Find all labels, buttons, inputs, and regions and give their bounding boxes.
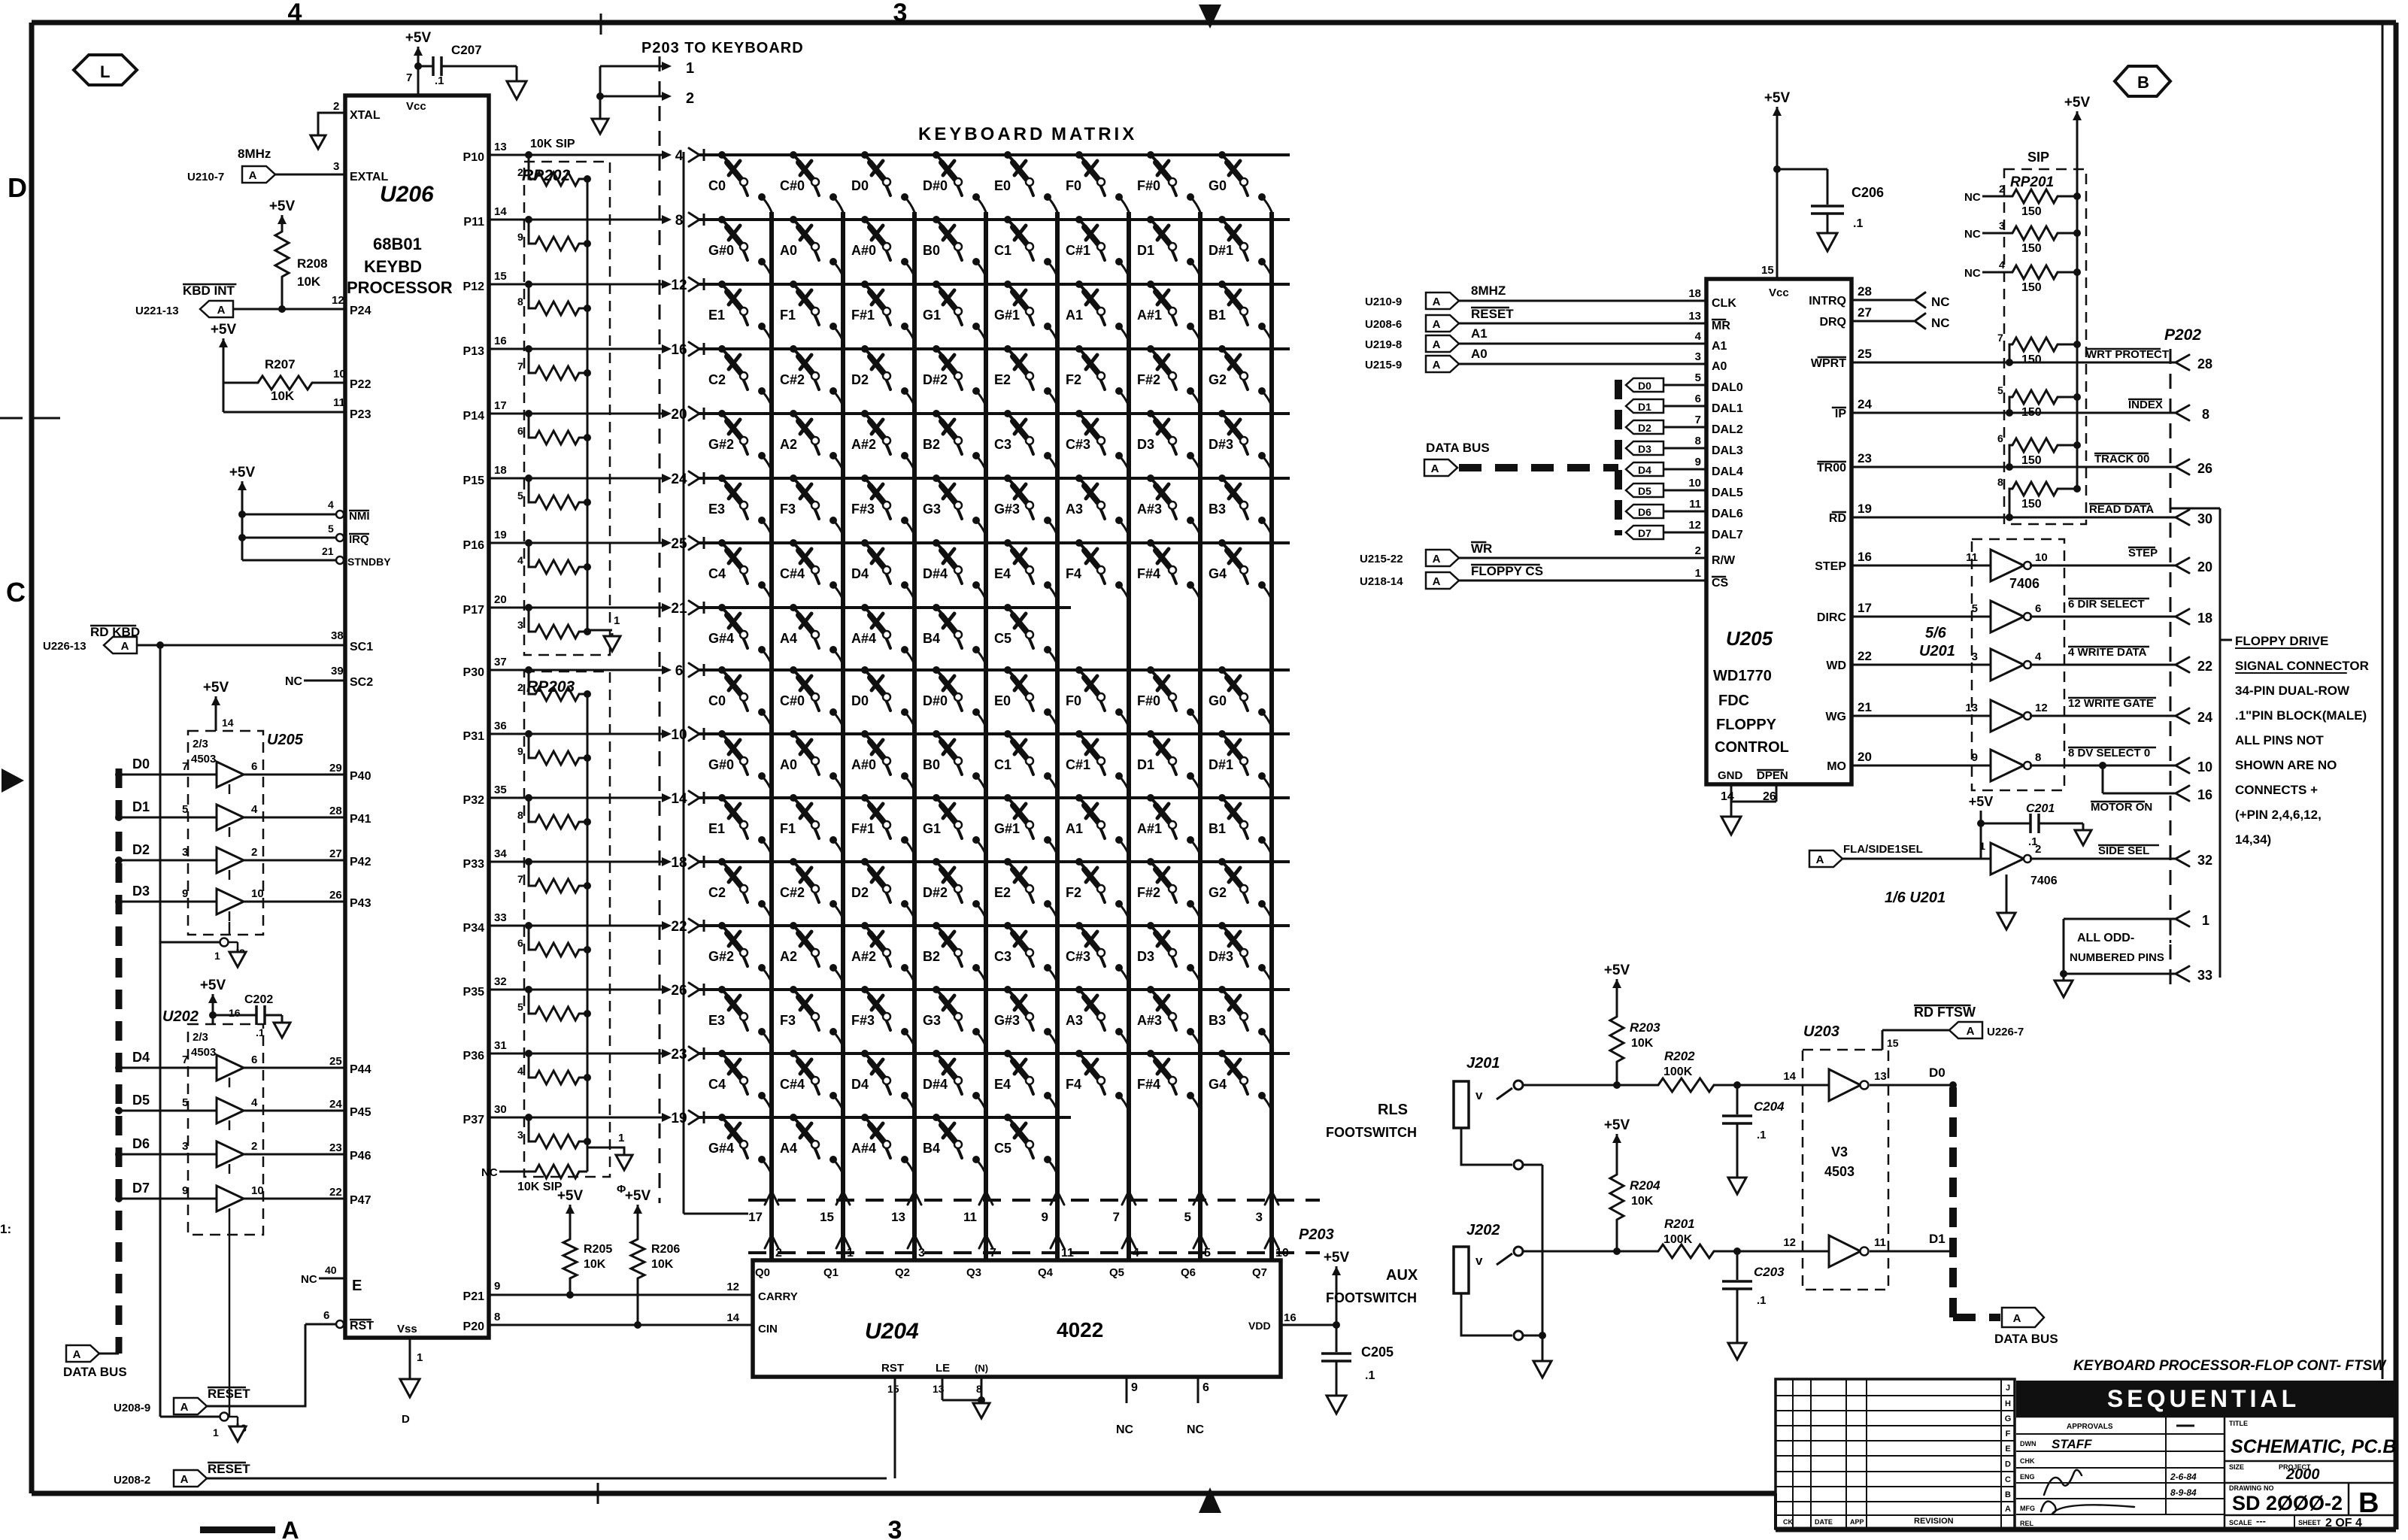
svg-text:22: 22 — [329, 1186, 342, 1199]
svg-text:C#4: C#4 — [780, 1077, 805, 1092]
key switch C#3 — [1075, 922, 1083, 929]
RP201 resistor pin 5 150 pullup — [2009, 397, 2012, 413]
svg-text:21: 21 — [1858, 700, 1872, 714]
svg-text:P31: P31 — [463, 730, 485, 743]
svg-text:DRAWING NO: DRAWING NO — [2229, 1484, 2274, 1492]
svg-text:G#2: G#2 — [708, 949, 734, 964]
svg-text:LE: LE — [936, 1362, 950, 1375]
svg-text:9: 9 — [182, 887, 188, 900]
svg-text:9: 9 — [1695, 456, 1701, 468]
svg-text:U206: U206 — [380, 182, 434, 207]
key switch F#4 — [1147, 539, 1154, 547]
svg-text:4503: 4503 — [191, 1046, 216, 1059]
svg-text:5: 5 — [1204, 1247, 1211, 1260]
svg-text:2: 2 — [517, 681, 523, 693]
svg-text:A#0: A#0 — [851, 757, 876, 772]
svg-text:A#1: A#1 — [1137, 821, 1162, 836]
svg-text:WD1770: WD1770 — [1713, 668, 1772, 684]
svg-text:D4: D4 — [851, 566, 869, 581]
P203 pin 15 arrows column 1 — [836, 1191, 850, 1205]
svg-text:3: 3 — [517, 1129, 523, 1141]
svg-text:FLA/SIDE1SEL: FLA/SIDE1SEL — [1843, 843, 1923, 856]
svg-text:A: A — [1431, 462, 1439, 475]
svg-text:28: 28 — [329, 805, 342, 817]
key switch A2 — [790, 410, 797, 417]
svg-text:C206: C206 — [1851, 185, 1884, 200]
svg-text:23: 23 — [1858, 451, 1872, 465]
svg-text:Q0: Q0 — [755, 1266, 770, 1279]
key switch G#1 — [1004, 280, 1011, 288]
svg-text:A: A — [180, 1473, 189, 1486]
buffer U205-d for D3 — [119, 901, 217, 903]
svg-text:P22: P22 — [350, 378, 372, 391]
svg-text:P44: P44 — [350, 1063, 372, 1076]
svg-text:A3: A3 — [1066, 502, 1083, 517]
svg-text:REL: REL — [2020, 1520, 2034, 1527]
svg-text:B3: B3 — [1209, 502, 1226, 517]
svg-text:35: 35 — [494, 784, 507, 796]
svg-text:+5V: +5V — [269, 199, 296, 214]
svg-text:16: 16 — [1858, 550, 1872, 564]
svg-text:F#3: F#3 — [851, 1013, 875, 1028]
svg-text:8: 8 — [517, 809, 523, 821]
svg-text:15: 15 — [887, 1383, 899, 1395]
svg-text:12 WRITE GATE: 12 WRITE GATE — [2068, 697, 2154, 710]
key switch D3 — [1147, 922, 1154, 929]
svg-text:D6: D6 — [1638, 506, 1651, 518]
key switch F#4 — [1147, 1050, 1154, 1057]
svg-text:A: A — [1816, 853, 1824, 866]
key switch G#0 — [718, 730, 726, 738]
svg-text:Q7: Q7 — [1252, 1266, 1267, 1279]
svg-text:C2: C2 — [708, 372, 726, 387]
resistor pack RP202 10K SIP dashed box — [524, 162, 610, 655]
svg-text:10: 10 — [251, 887, 264, 900]
svg-text:8: 8 — [675, 213, 684, 229]
key switch C#1 — [1075, 730, 1083, 738]
svg-text:SD 2ØØØ-2: SD 2ØØØ-2 — [2232, 1492, 2343, 1514]
svg-text:12: 12 — [671, 277, 687, 293]
key switch F1 — [790, 280, 797, 288]
wire scan row 11 from U206 (P203 pin 14) — [489, 797, 665, 799]
svg-text:GND: GND — [1718, 769, 1743, 782]
svg-text:8: 8 — [1695, 435, 1701, 447]
key switch D4 — [861, 539, 869, 547]
svg-text:STNDBY: STNDBY — [347, 556, 391, 568]
ground below C207 — [516, 66, 518, 78]
svg-text:7: 7 — [406, 71, 412, 84]
svg-text:U218-14: U218-14 — [1360, 575, 1403, 588]
svg-text:7: 7 — [517, 873, 523, 885]
svg-text:J202: J202 — [1466, 1222, 1500, 1238]
svg-text:14: 14 — [222, 717, 234, 729]
svg-text:25: 25 — [329, 1055, 342, 1068]
P203 connector dashed rows at matrix bottom — [748, 1199, 1320, 1202]
svg-text:D0: D0 — [851, 178, 869, 193]
svg-text:ALL PINS NOT: ALL PINS NOT — [2235, 733, 2324, 747]
U206 pin 11 P23 — [223, 411, 345, 414]
svg-text:16: 16 — [494, 335, 507, 347]
svg-text:DPEN: DPEN — [1757, 769, 1788, 782]
key switch F#1 — [861, 794, 869, 802]
IC U202 buffer 2/3 4503 lower — [188, 1024, 263, 1235]
svg-text:A1: A1 — [1066, 308, 1083, 323]
svg-text:DAL1: DAL1 — [1712, 402, 1743, 415]
svg-text:FDC: FDC — [1718, 693, 1749, 709]
svg-text:A: A — [1433, 575, 1441, 588]
key switch C0 — [718, 666, 726, 674]
svg-text:STEP: STEP — [1815, 560, 1846, 573]
svg-text:15: 15 — [494, 270, 507, 283]
svg-text:D#0: D#0 — [923, 693, 948, 708]
svg-text:9: 9 — [182, 1184, 188, 1197]
svg-text:A#4: A#4 — [851, 631, 876, 646]
key switch A3 — [1075, 986, 1083, 993]
svg-text:NUMBERED PINS: NUMBERED PINS — [2070, 951, 2164, 964]
svg-text:15: 15 — [820, 1210, 834, 1224]
svg-text:+5V: +5V — [1764, 90, 1791, 106]
svg-text:P47: P47 — [350, 1194, 372, 1207]
svg-text:E4: E4 — [994, 1077, 1011, 1092]
svg-text:B1: B1 — [1209, 821, 1226, 836]
svg-text:P202: P202 — [2164, 326, 2201, 344]
svg-text:E: E — [352, 1278, 362, 1294]
svg-text:17: 17 — [1858, 601, 1872, 615]
svg-text:D7: D7 — [1638, 527, 1651, 539]
svg-text:P12: P12 — [463, 280, 485, 293]
key switch C5 — [1004, 1114, 1011, 1121]
key switch C3 — [1004, 410, 1011, 417]
svg-text:A0: A0 — [780, 757, 797, 772]
data bus flag D6 to DAL6 — [1626, 505, 1663, 518]
svg-text:SIDE SEL: SIDE SEL — [2098, 844, 2149, 857]
svg-text:4: 4 — [2035, 650, 2042, 663]
svg-text:E4: E4 — [994, 566, 1011, 581]
jack J202 sleeve to shared ground — [1461, 1293, 1512, 1335]
svg-text:14,34): 14,34) — [2235, 832, 2271, 847]
svg-text:1: 1 — [213, 1426, 219, 1438]
svg-text:3: 3 — [182, 846, 188, 859]
svg-text:6: 6 — [1695, 393, 1701, 405]
P202 odd pins 1 and 33 to ground — [2064, 918, 2176, 920]
svg-text:18: 18 — [1688, 287, 1701, 300]
svg-text:18: 18 — [2197, 611, 2212, 626]
svg-text:XTAL: XTAL — [350, 109, 381, 122]
svg-text:U205: U205 — [1726, 627, 1773, 650]
key switch B0 — [933, 216, 940, 223]
svg-text:8 DV SELECT 0: 8 DV SELECT 0 — [2068, 747, 2150, 759]
svg-text:.1"PIN BLOCK(MALE): .1"PIN BLOCK(MALE) — [2235, 708, 2367, 723]
svg-text:4: 4 — [288, 0, 302, 27]
svg-text:EXTAL: EXTAL — [350, 171, 388, 183]
key switch A0 — [790, 216, 797, 223]
svg-text:1: 1 — [214, 950, 220, 962]
svg-text:D2: D2 — [1638, 422, 1651, 434]
svg-text:11: 11 — [333, 396, 345, 409]
svg-text:RST: RST — [881, 1362, 904, 1375]
svg-text:C: C — [2005, 1475, 2011, 1484]
svg-text:+5V: +5V — [1324, 1250, 1350, 1266]
svg-text:14: 14 — [726, 1311, 739, 1324]
center alignment arrow bottom — [1199, 1487, 1221, 1513]
svg-text:10: 10 — [333, 368, 346, 380]
svg-text:5: 5 — [1972, 602, 1978, 615]
key switch A0 — [790, 730, 797, 738]
key switch C#1 — [1075, 216, 1083, 223]
svg-text:DATA BUS: DATA BUS — [63, 1365, 127, 1379]
P203 connector dashed boundary line vertical — [659, 56, 661, 1203]
svg-text:A0: A0 — [1471, 347, 1488, 361]
svg-text:F: F — [2006, 1429, 2011, 1438]
svg-text:ALL ODD-: ALL ODD- — [2077, 932, 2134, 944]
svg-text:U215-9: U215-9 — [1365, 359, 1402, 371]
key switch D#2 — [933, 345, 940, 353]
svg-text:68B01: 68B01 — [373, 235, 422, 253]
key switch B2 — [933, 410, 940, 417]
data bus bold dashed from footswitch buffers — [1949, 1087, 1957, 1317]
svg-text:6: 6 — [1997, 432, 2003, 444]
svg-text:+5V: +5V — [2064, 95, 2091, 111]
RP203 resistor to P33 — [529, 862, 535, 886]
svg-text:12: 12 — [2035, 702, 2048, 714]
svg-text:Q2: Q2 — [895, 1266, 910, 1279]
svg-text:5: 5 — [517, 490, 523, 502]
data bus flag D3 to DAL3 — [1626, 441, 1663, 455]
key switch A#0 — [861, 216, 869, 223]
svg-text:P40: P40 — [350, 770, 372, 783]
svg-text:2: 2 — [1695, 544, 1701, 557]
svg-text:Vss: Vss — [397, 1323, 417, 1335]
key switch D3 — [1147, 410, 1154, 417]
svg-text:APP: APP — [1850, 1518, 1864, 1526]
svg-text:Vcc: Vcc — [1769, 286, 1789, 299]
RP203 resistor to P31 — [529, 734, 535, 758]
key switch B3 — [1218, 986, 1226, 993]
revision hexagon B top right — [2115, 66, 2170, 96]
svg-text:A: A — [1433, 318, 1441, 331]
key switch E0 — [1004, 151, 1011, 159]
svg-text:U202: U202 — [162, 1008, 199, 1025]
svg-text:20: 20 — [494, 593, 507, 606]
RP202 resistor to P10 — [529, 155, 535, 179]
svg-text:TR00: TR00 — [1817, 462, 1846, 474]
svg-text:G3: G3 — [923, 1013, 941, 1028]
key switch D#0 — [933, 151, 940, 159]
U201 1/6 ground pin — [2006, 875, 2008, 910]
svg-text:C3: C3 — [994, 437, 1011, 452]
svg-text:P41: P41 — [350, 813, 372, 826]
svg-text:G#0: G#0 — [708, 757, 734, 772]
svg-text:FLOPPY CS: FLOPPY CS — [1471, 564, 1543, 578]
svg-text:D3: D3 — [1137, 437, 1154, 452]
svg-text:16: 16 — [2197, 787, 2212, 802]
wire scan row 4 from U206 (P203 pin 16) — [489, 348, 665, 350]
svg-text:MOTOR ON: MOTOR ON — [2091, 801, 2152, 814]
svg-text:RST: RST — [350, 1320, 374, 1332]
key switch D1 — [1147, 730, 1154, 738]
RP201 resistor pin 7 150 pullup — [2009, 344, 2012, 362]
svg-text:E1: E1 — [708, 308, 725, 323]
svg-text:A: A — [1433, 296, 1441, 308]
RP203 resistor to P32 — [529, 798, 535, 822]
svg-text:F1: F1 — [780, 821, 796, 836]
svg-text:v: v — [1475, 1254, 1483, 1268]
key switch E4 — [1004, 1050, 1011, 1057]
svg-text:10: 10 — [671, 727, 687, 743]
svg-text:U208-6: U208-6 — [1365, 318, 1402, 331]
svg-text:4: 4 — [251, 1096, 258, 1109]
key switch B0 — [933, 730, 940, 738]
svg-text:B0: B0 — [923, 757, 940, 772]
svg-text:MFG: MFG — [2020, 1505, 2035, 1512]
svg-text:E0: E0 — [994, 693, 1011, 708]
svg-text:2-6-84: 2-6-84 — [2170, 1472, 2197, 1482]
key switch A#0 — [861, 730, 869, 738]
svg-text:6: 6 — [323, 1309, 329, 1322]
key switch B2 — [933, 922, 940, 929]
svg-text:D0: D0 — [132, 756, 150, 772]
key switch G#4 — [718, 1114, 726, 1121]
svg-text:D5: D5 — [1638, 485, 1651, 497]
svg-text:H: H — [2005, 1399, 2011, 1408]
svg-text:23: 23 — [671, 1047, 687, 1063]
key switch B1 — [1218, 280, 1226, 288]
svg-text:A: A — [121, 640, 129, 653]
svg-text:D4: D4 — [132, 1050, 150, 1065]
svg-text:+5V: +5V — [405, 30, 432, 46]
svg-text:D6: D6 — [132, 1136, 150, 1151]
svg-text:P16: P16 — [463, 539, 485, 552]
svg-text:NC: NC — [301, 1273, 317, 1286]
svg-text:P15: P15 — [463, 474, 485, 487]
svg-text:21: 21 — [671, 601, 687, 617]
svg-text:7406: 7406 — [2009, 576, 2040, 591]
svg-text:F0: F0 — [1066, 693, 1081, 708]
key switch D#1 — [1218, 216, 1226, 223]
svg-text:C2: C2 — [708, 885, 726, 900]
svg-text:WRT PROTECT: WRT PROTECT — [2086, 348, 2169, 361]
svg-text:G#1: G#1 — [994, 308, 1020, 323]
svg-text:23: 23 — [329, 1141, 342, 1154]
svg-text:INDEX: INDEX — [2128, 399, 2163, 411]
svg-text:5: 5 — [182, 803, 188, 816]
center alignment arrow left — [2, 768, 24, 793]
svg-text:8: 8 — [1997, 476, 2003, 488]
svg-text:E2: E2 — [994, 372, 1011, 387]
svg-text:34: 34 — [494, 847, 507, 860]
svg-text:D#3: D#3 — [1209, 437, 1233, 452]
buffer U202-c for D6 — [119, 1153, 217, 1156]
svg-text:17: 17 — [494, 399, 507, 412]
svg-text:18: 18 — [671, 855, 687, 871]
svg-text:CONNECTS +: CONNECTS + — [2235, 783, 2318, 797]
svg-text:D: D — [402, 1413, 410, 1426]
left fold tick — [0, 417, 23, 420]
key switch G2 — [1218, 345, 1226, 353]
svg-text:NC: NC — [285, 675, 303, 688]
svg-text:16: 16 — [671, 342, 687, 358]
svg-text:E: E — [2005, 1445, 2010, 1454]
key switch G0 — [1218, 666, 1226, 674]
key switch D#3 — [1218, 922, 1226, 929]
svg-text:30: 30 — [2197, 511, 2212, 526]
svg-text:+5V: +5V — [1604, 1117, 1630, 1133]
svg-text:13: 13 — [891, 1210, 905, 1224]
svg-text:A4: A4 — [780, 1141, 797, 1156]
svg-text:D0: D0 — [1929, 1066, 1946, 1080]
svg-text:SIGNAL CONNECTOR: SIGNAL CONNECTOR — [2235, 659, 2369, 673]
svg-text:G0: G0 — [1209, 693, 1227, 708]
svg-text:C0: C0 — [708, 693, 726, 708]
svg-text:A#2: A#2 — [851, 949, 876, 964]
svg-text:P37: P37 — [463, 1114, 485, 1126]
svg-text:24: 24 — [1858, 397, 1872, 411]
svg-text:100K: 100K — [1663, 1233, 1693, 1246]
svg-text:.1: .1 — [1757, 1294, 1767, 1307]
key switch D4 — [861, 1050, 869, 1057]
svg-text:P14: P14 — [463, 410, 485, 423]
wire MOTOR ON to P202 pin 16 — [2099, 762, 2106, 769]
key switch A4 — [790, 604, 797, 611]
svg-text:NC: NC — [1964, 191, 1981, 204]
svg-text:8: 8 — [494, 1311, 500, 1323]
key switch E2 — [1004, 345, 1011, 353]
wire scan row 7 from U206 (P203 pin 25) — [489, 542, 665, 544]
svg-text:10K: 10K — [297, 274, 321, 289]
key switch E3 — [718, 474, 726, 482]
buffer U202-d for D7 — [119, 1198, 217, 1200]
svg-text:3: 3 — [333, 160, 339, 173]
svg-text:4: 4 — [251, 803, 258, 816]
key switch F#1 — [861, 280, 869, 288]
P203 pin 13 arrows column 2 — [908, 1191, 921, 1205]
capacitor C205 .1 to ground — [1336, 1325, 1338, 1352]
svg-text:DAL3: DAL3 — [1712, 444, 1743, 457]
svg-text:DATA BUS: DATA BUS — [1426, 441, 1490, 455]
svg-text:R207: R207 — [265, 357, 296, 371]
key switch G4 — [1218, 1050, 1226, 1057]
svg-text:4: 4 — [517, 554, 523, 566]
svg-text:B: B — [2137, 73, 2149, 92]
svg-text:CONTROL: CONTROL — [1715, 739, 1789, 756]
RP202 common bus to pin 1 ground — [587, 179, 589, 630]
svg-text:22: 22 — [1858, 649, 1872, 663]
svg-text:L: L — [100, 62, 110, 81]
svg-text:MR: MR — [1712, 320, 1730, 332]
svg-text:C5: C5 — [994, 631, 1011, 646]
svg-text:+5V: +5V — [211, 322, 237, 338]
svg-text:AUX: AUX — [1386, 1267, 1418, 1284]
inverter U201 pins 11-10 driving STEP — [1851, 565, 1991, 567]
key switch G0 — [1218, 151, 1226, 159]
svg-text:10: 10 — [251, 1184, 264, 1197]
resistor R202 100K — [1658, 1078, 1714, 1092]
svg-text:F2: F2 — [1066, 372, 1081, 387]
svg-text:D#4: D#4 — [923, 1077, 948, 1092]
key switch C2 — [718, 858, 726, 865]
svg-text:U204: U204 — [865, 1319, 919, 1344]
svg-text:E2: E2 — [994, 885, 1011, 900]
key switch G3 — [933, 986, 940, 993]
key switch F4 — [1075, 1050, 1083, 1057]
svg-text:150: 150 — [2021, 205, 2042, 218]
svg-text:20: 20 — [671, 407, 687, 423]
svg-text:A#0: A#0 — [851, 243, 876, 258]
svg-text:CIN: CIN — [758, 1323, 778, 1335]
svg-text:.1: .1 — [435, 74, 444, 87]
svg-text:A#3: A#3 — [1137, 502, 1162, 517]
svg-text:C#3: C#3 — [1066, 949, 1090, 964]
